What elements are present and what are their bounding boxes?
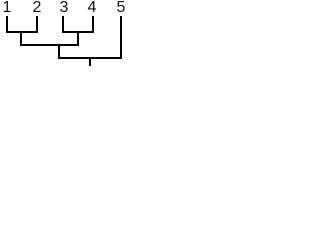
wire: leaf 1 drop — [6, 16, 8, 33]
wire: bar joining cluster 1234 with 5 — [58, 57, 122, 59]
wire: stem from cluster 12 — [20, 33, 22, 46]
wire: bar joining cluster 12 with cluster 34 — [20, 44, 79, 46]
wire: bracket joining 1+2 — [6, 31, 38, 33]
wire: stem from cluster 1234 — [58, 46, 60, 59]
wire: stem from cluster 34 — [77, 33, 79, 46]
node label 2 — [17, 0, 57, 16]
node label 5 — [101, 0, 141, 16]
node label 4 — [72, 0, 112, 16]
node label 1 — [0, 0, 27, 16]
wire: leaf 4 drop — [92, 16, 94, 33]
node label 3 — [44, 0, 84, 16]
wire: leaf 3 drop — [62, 16, 64, 33]
wire: leaf 2 drop — [36, 16, 38, 33]
wire: bracket joining 3+4 — [62, 31, 94, 33]
wire: leaf 5 drop — [120, 16, 122, 59]
wire: root stem — [89, 59, 91, 66]
